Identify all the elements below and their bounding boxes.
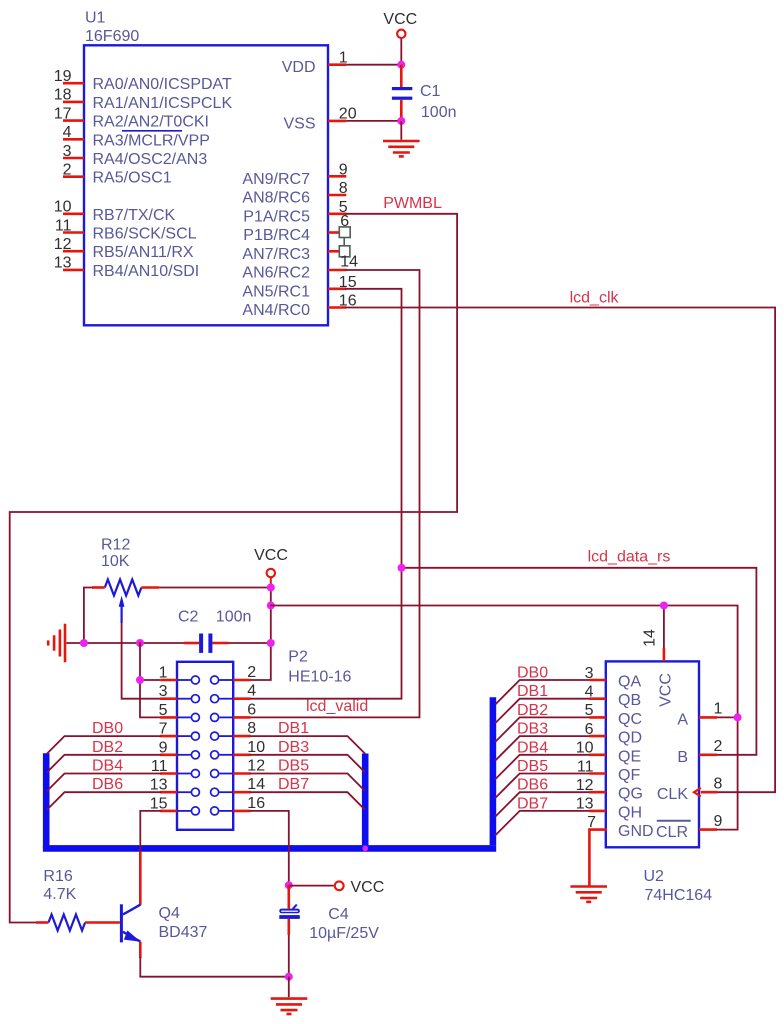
svg-text:R16: R16 <box>43 868 72 885</box>
svg-text:4: 4 <box>585 684 594 701</box>
IC U2 74HC164 box <box>606 661 699 847</box>
no-connect box pin 7 <box>339 246 350 257</box>
svg-text:11: 11 <box>55 217 72 234</box>
svg-text:18: 18 <box>54 87 72 104</box>
P2 pin 4 <box>219 698 233 700</box>
bus vertical right of P2 <box>362 754 369 846</box>
P2 pin 9 <box>177 754 191 756</box>
wire net DB4 to P2 <box>48 774 161 791</box>
wire net DB3 to P2 <box>251 755 365 772</box>
svg-text:10K: 10K <box>101 553 130 570</box>
svg-text:DB0: DB0 <box>517 665 548 682</box>
svg-text:VCC: VCC <box>658 673 675 707</box>
P2 pin 2 <box>219 679 233 681</box>
U2 pin 1 A <box>699 716 717 719</box>
U1 pin 1 VDD <box>328 63 346 66</box>
U2 pin 4 QB <box>589 697 606 700</box>
svg-text:QG: QG <box>618 786 643 803</box>
wire P2 pin15 down to Q4 collector <box>140 811 160 852</box>
svg-text:1: 1 <box>159 665 168 682</box>
U2 pin 10 QE <box>589 753 606 756</box>
resistor R16 4.7K <box>49 915 86 931</box>
svg-text:1: 1 <box>714 701 723 718</box>
svg-text:12: 12 <box>247 758 265 775</box>
U1 pin 2 RA5/OSC1 <box>63 175 84 178</box>
svg-text:VCC: VCC <box>351 879 385 896</box>
U2 pin 14 VCC stub <box>663 648 666 661</box>
CLR overline <box>657 820 691 822</box>
svg-text:9: 9 <box>714 813 723 830</box>
svg-text:10: 10 <box>54 199 72 216</box>
svg-text:RB4/AN10/SDI: RB4/AN10/SDI <box>93 263 200 280</box>
svg-text:DB2: DB2 <box>92 739 123 756</box>
svg-text:DB2: DB2 <box>517 702 548 719</box>
power VCC symbol mid <box>267 569 275 577</box>
svg-text:QC: QC <box>618 711 642 728</box>
svg-text:14: 14 <box>642 629 659 647</box>
svg-text:9: 9 <box>159 739 168 756</box>
svg-text:14: 14 <box>340 254 358 271</box>
wire net lcd_data_rs: pin15 AN5/RC1 to P2 pin 4 <box>251 289 402 699</box>
svg-text:DB5: DB5 <box>278 758 309 775</box>
svg-text:VCC: VCC <box>383 11 417 28</box>
wire VCC line to U2 pin14 / A / CLR <box>271 606 738 830</box>
wire drop to P2 pin1 and pin5 <box>140 643 160 717</box>
wire pin1 VDD to junction <box>346 64 401 66</box>
svg-text:CLR: CLR <box>656 824 688 841</box>
U2 pin 11 QF <box>589 772 606 775</box>
svg-text:3: 3 <box>585 665 594 682</box>
ground below Q4/C4 <box>271 997 308 1000</box>
transistor Q4 BD437 <box>120 904 123 942</box>
svg-text:16: 16 <box>247 795 265 812</box>
svg-text:10µF/25V: 10µF/25V <box>309 925 379 942</box>
svg-text:8: 8 <box>339 180 348 197</box>
svg-text:AN5/RC1: AN5/RC1 <box>242 283 310 300</box>
svg-text:DB1: DB1 <box>278 720 309 737</box>
svg-text:CLK: CLK <box>657 786 688 803</box>
svg-text:2: 2 <box>63 162 72 179</box>
wire net lcd_valid: pin14 AN6/RC2 to P2 pin 6 <box>251 270 420 717</box>
P2 pin 5 <box>177 716 191 718</box>
svg-text:12: 12 <box>54 236 72 253</box>
U1 pin 13 RB4/AN10/SDI <box>63 269 84 272</box>
svg-text:RA3/MCLR/VPP: RA3/MCLR/VPP <box>93 132 210 149</box>
U1 pin 19 RA0/AN0/ICSPDAT <box>63 82 84 85</box>
wire net DB4 to U2 QE <box>496 755 589 779</box>
svg-text:4: 4 <box>63 124 72 141</box>
wire net DB6 to U2 QG <box>496 792 589 816</box>
svg-text:RA2/AN2/T0CKI: RA2/AN2/T0CKI <box>93 114 209 131</box>
P2 pin 11 <box>177 773 191 775</box>
wire U2 GND to ground <box>589 830 605 886</box>
U1 pin 12 RB5/AN11/RX <box>63 250 84 253</box>
junction VCC line to U2 <box>267 602 275 610</box>
svg-text:13: 13 <box>150 777 168 794</box>
svg-text:QE: QE <box>618 748 641 765</box>
U1 pin 4 RA3/MCLR/VPP <box>63 138 84 141</box>
bus vertical at U2 <box>490 697 497 845</box>
U1 pin 11 RB6/SCK/SCL <box>63 231 84 234</box>
wire C4 bottom to ground junction <box>287 919 290 935</box>
junction A/CLR/VCC <box>734 713 742 721</box>
P2 pin 3 <box>177 698 191 700</box>
svg-text:RA0/AN0/ICSPDAT: RA0/AN0/ICSPDAT <box>93 76 233 93</box>
svg-text:RA5/OSC1: RA5/OSC1 <box>93 170 172 187</box>
U2 pin 5 QC <box>589 716 606 719</box>
svg-text:6: 6 <box>585 721 594 738</box>
U2 pin 8 CLK <box>694 788 701 797</box>
svg-text:VSS: VSS <box>283 115 315 132</box>
svg-text:4.7K: 4.7K <box>43 886 76 903</box>
U2 pin 2 B <box>699 753 717 756</box>
ground below U2 <box>570 885 607 888</box>
wire R12 left down to ground line <box>84 588 92 644</box>
svg-text:5: 5 <box>585 702 594 719</box>
svg-text:10: 10 <box>576 740 594 757</box>
svg-text:QA: QA <box>618 674 641 691</box>
U2 pin 9 CLR <box>699 828 717 831</box>
wire net DB1 to U2 QB <box>496 699 589 723</box>
svg-text:RB5/AN11/RX: RB5/AN11/RX <box>93 244 194 261</box>
junction VSS/C1 <box>397 117 405 125</box>
P2 pin 6 <box>219 716 233 718</box>
svg-text:A: A <box>677 711 688 728</box>
resistor R12 10K <box>105 580 142 596</box>
wire P2 pin16 to C4/VCC junction <box>251 811 289 885</box>
wire net DB2 to U2 QC <box>496 717 589 741</box>
svg-text:DB3: DB3 <box>517 721 548 738</box>
svg-text:100n: 100n <box>216 608 252 625</box>
capacitor C2 100n <box>184 642 199 645</box>
svg-text:16F690: 16F690 <box>85 28 139 45</box>
wire net lcd_data_rs branch to U2 pin B <box>402 568 757 755</box>
capacitor C4 electrolytic <box>287 885 290 908</box>
svg-text:6: 6 <box>247 701 256 718</box>
U1 RA2 pin underline AN2/T0 <box>122 130 182 132</box>
svg-text:GND: GND <box>618 823 654 840</box>
wire branch to P2 pin1 <box>140 679 160 681</box>
svg-text:8: 8 <box>714 776 723 793</box>
svg-text:lcd_valid: lcd_valid <box>306 698 368 715</box>
wire branch U2 pin 14 VCC <box>663 606 665 649</box>
R12 wiper arrow <box>119 596 125 607</box>
svg-text:100n: 100n <box>421 104 457 121</box>
wire C2 right to VCC stem <box>229 642 271 644</box>
svg-text:74HC164: 74HC164 <box>645 887 713 904</box>
R16 left lead <box>36 921 49 924</box>
wire net DB7 to P2 <box>251 792 365 809</box>
svg-text:AN9/RC7: AN9/RC7 <box>242 171 310 188</box>
svg-text:QH: QH <box>618 804 642 821</box>
wire net DB5 to P2 <box>251 774 365 791</box>
bus horizontal <box>43 845 496 852</box>
svg-text:2: 2 <box>714 738 723 755</box>
svg-text:U2: U2 <box>644 868 665 885</box>
svg-text:C2: C2 <box>178 608 199 625</box>
wire net DB0 to U2 QA <box>496 680 589 704</box>
U1 pin 10 RB7/TX/CK <box>63 213 84 216</box>
svg-text:C4: C4 <box>328 906 349 923</box>
P2 pin 14 <box>219 791 233 793</box>
svg-text:12: 12 <box>576 777 594 794</box>
svg-text:6: 6 <box>340 213 349 230</box>
U2 pin 6 QD <box>589 735 606 738</box>
P2 pin 10 <box>219 754 233 756</box>
junction bus P2-right <box>362 846 368 852</box>
svg-text:DB1: DB1 <box>517 683 548 700</box>
wire pin20 VSS to junction <box>346 120 401 122</box>
wire net lcd_clk: pin16 to U2 CLK <box>346 308 775 793</box>
junction pin1 branch <box>136 676 144 684</box>
junction C4/VCC <box>285 881 293 889</box>
svg-text:3: 3 <box>63 143 72 160</box>
svg-text:Q4: Q4 <box>159 905 180 922</box>
bus vertical left of P2 <box>43 753 50 848</box>
svg-text:DB4: DB4 <box>517 739 548 756</box>
U1 pin 17 RA2/AN2/T0CKI <box>63 119 84 122</box>
wire Q4 emitter down and right to ground junction <box>139 942 142 958</box>
junction lcd_data_rs <box>398 564 406 572</box>
svg-text:4: 4 <box>247 683 256 700</box>
svg-text:DB5: DB5 <box>517 758 548 775</box>
junction C2 line / pin1-pin5 drop <box>136 639 144 647</box>
svg-text:DB0: DB0 <box>92 720 123 737</box>
no-connect box pin 6 <box>339 227 350 238</box>
wire VCC stem to pin1 <box>400 38 402 64</box>
wire net DB6 to P2 <box>48 792 161 809</box>
svg-text:DB4: DB4 <box>92 758 123 775</box>
svg-text:DB7: DB7 <box>517 795 548 812</box>
junction VCC/C2 <box>267 639 275 647</box>
svg-text:13: 13 <box>576 796 594 813</box>
power VCC symbol top <box>397 30 405 38</box>
svg-text:P1B/RC4: P1B/RC4 <box>243 227 310 244</box>
svg-text:QB: QB <box>618 692 641 709</box>
svg-text:QD: QD <box>618 730 642 747</box>
svg-text:8: 8 <box>247 720 256 737</box>
P2 pin 12 <box>219 773 233 775</box>
U2 pin 3 QA <box>589 679 606 682</box>
svg-text:15: 15 <box>150 795 168 812</box>
svg-text:2: 2 <box>247 664 256 681</box>
svg-text:B: B <box>677 749 688 766</box>
capacitor C1 <box>400 65 403 87</box>
svg-text:9: 9 <box>339 162 348 179</box>
svg-text:DB6: DB6 <box>517 777 548 794</box>
svg-text:VDD: VDD <box>282 59 316 76</box>
svg-text:7: 7 <box>159 721 168 738</box>
svg-text:DB7: DB7 <box>278 776 309 793</box>
wire net DB5 to U2 QF <box>496 774 589 798</box>
svg-text:PWMBL: PWMBL <box>383 195 442 212</box>
wire junction to VCC ring <box>289 885 334 887</box>
U2 pin 12 QG <box>589 791 606 794</box>
R16 right lead to Q4 base <box>85 921 120 924</box>
P2 pin 13 <box>177 791 191 793</box>
svg-text:AN7/RC3: AN7/RC3 <box>242 246 310 263</box>
svg-text:RA4/OSC2/AN3: RA4/OSC2/AN3 <box>93 151 208 168</box>
svg-text:AN4/RC0: AN4/RC0 <box>242 302 310 319</box>
wire net DB0 to P2 <box>48 736 161 753</box>
svg-text:13: 13 <box>54 255 72 272</box>
svg-text:QF: QF <box>618 767 640 784</box>
svg-text:DB3: DB3 <box>278 739 309 756</box>
svg-text:lcd_clk: lcd_clk <box>570 290 620 307</box>
wire net DB3 to U2 QD <box>496 736 589 760</box>
U2 pin 13 QH <box>589 810 606 813</box>
wire junction to ground <box>288 977 290 998</box>
P2 pin 1 <box>177 679 191 681</box>
R12 right lead <box>141 586 159 589</box>
junction VDD/VCC <box>397 61 405 69</box>
svg-text:P1A/RC5: P1A/RC5 <box>243 208 310 225</box>
U1 pin 18 RA1/AN1/ICSPCLK <box>63 101 84 104</box>
svg-text:DB6: DB6 <box>92 776 123 793</box>
svg-text:11: 11 <box>577 758 594 775</box>
svg-text:RB7/TX/CK: RB7/TX/CK <box>93 207 176 224</box>
ground below C1 <box>383 140 420 143</box>
svg-text:R12: R12 <box>101 537 130 554</box>
ground symbol left (rotated) <box>64 624 67 663</box>
svg-text:14: 14 <box>247 776 265 793</box>
svg-text:HE10-16: HE10-16 <box>288 669 351 686</box>
svg-text:RA1/AN1/ICSPCLK: RA1/AN1/ICSPCLK <box>93 95 233 112</box>
P2 pin 16 <box>219 810 233 812</box>
wire wiper to P2 pin 3 <box>122 623 161 699</box>
svg-text:3: 3 <box>159 683 168 700</box>
wire junction to ground <box>400 121 402 140</box>
P2 pin 7 <box>177 735 191 737</box>
junction VCC/R12 <box>267 584 275 592</box>
U1 pin 3 RA4/OSC2/AN3 <box>63 157 84 160</box>
svg-text:AN6/RC2: AN6/RC2 <box>242 265 310 282</box>
junction U2 VCC drop <box>660 602 668 610</box>
svg-text:BD437: BD437 <box>159 924 208 941</box>
connector P2 HE10-16 box <box>177 662 233 830</box>
svg-text:19: 19 <box>54 68 72 85</box>
svg-text:17: 17 <box>54 105 72 122</box>
IC U1 16F690 microcontroller box <box>84 45 328 325</box>
wire ground line to C2 <box>66 642 184 644</box>
svg-text:C1: C1 <box>420 83 441 100</box>
svg-text:VCC: VCC <box>254 547 288 564</box>
wire branch U2 pin A <box>717 716 738 718</box>
wire net DB2 to P2 <box>48 755 161 772</box>
junction emitter/C4/ground <box>285 973 293 981</box>
svg-text:5: 5 <box>159 702 168 719</box>
svg-text:U1: U1 <box>85 9 106 26</box>
R12 left lead <box>92 586 105 589</box>
power VCC symbol bottom <box>335 881 344 890</box>
U1 pin 20 VSS <box>328 120 346 123</box>
wire net PWMBL: pin5 to R16 via left side <box>10 214 457 923</box>
svg-text:11: 11 <box>151 758 168 775</box>
P2 pin 8 <box>219 735 233 737</box>
junction R12/ground line <box>80 639 88 647</box>
wire VCC stem down to P2 pin 2 <box>270 577 272 588</box>
svg-text:AN8/RC6: AN8/RC6 <box>242 190 310 207</box>
svg-text:RB6/SCK/SCL: RB6/SCK/SCL <box>93 226 197 243</box>
svg-text:P2: P2 <box>288 649 308 666</box>
svg-text:10: 10 <box>247 739 265 756</box>
svg-text:lcd_data_rs: lcd_data_rs <box>588 548 671 565</box>
wire R12 right to VCC stem <box>159 587 270 589</box>
P2 pin 15 <box>177 810 191 812</box>
wire net DB1 to P2 <box>251 736 365 753</box>
wire net DB7 to U2 QH <box>496 811 589 835</box>
